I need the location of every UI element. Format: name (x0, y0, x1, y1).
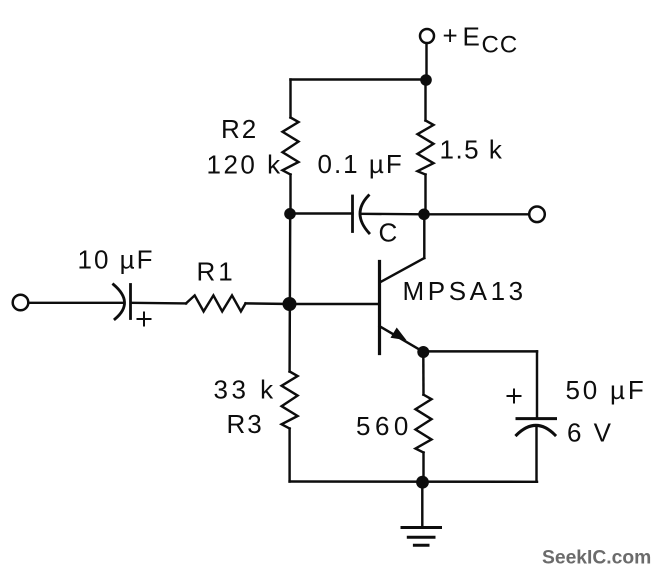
wire base lead (290, 303, 379, 305)
svg-text:E: E (463, 21, 482, 51)
wire top rail (291, 78, 427, 80)
terminal input (13, 295, 29, 311)
ground bar 1 (402, 526, 441, 529)
svg-text:C: C (379, 218, 400, 248)
svg-text:10 µF: 10 µF (78, 245, 155, 275)
terminal output (529, 207, 545, 223)
capacitor C 0.1uF curved plate (360, 196, 369, 234)
wire input lead (29, 302, 124, 304)
node emitter junction dot (417, 346, 429, 358)
capacitor 50uF straight plate (517, 417, 556, 420)
wire bypass cap top lead (536, 351, 538, 418)
wire 1.5k bottom lead (424, 175, 426, 215)
capacitor 10uF curved plate (114, 285, 125, 320)
terminal +Ecc (420, 29, 434, 43)
svg-text:CC: CC (482, 31, 519, 58)
wire R1 to base node (246, 302, 290, 305)
svg-text:1.5 k: 1.5 k (440, 135, 504, 165)
ground bar 2 (408, 536, 434, 539)
polarity plus of 10uF (138, 313, 151, 326)
wire output lead (424, 213, 529, 215)
svg-text:6 V: 6 V (567, 418, 614, 448)
wire capacitor C to output node (362, 213, 424, 216)
wire bottom rail (290, 480, 537, 483)
svg-text:560: 560 (356, 411, 413, 441)
wire node to capacitor C (290, 212, 353, 214)
svg-text:120 k: 120 k (207, 150, 283, 180)
capacitor 10uF straight plate (129, 285, 132, 319)
wire bypass cap bottom lead (535, 426, 537, 482)
node base junction dot (283, 297, 297, 311)
node top junction dot (420, 74, 432, 86)
wire collector diagonal (381, 258, 425, 282)
svg-text:+: + (443, 21, 460, 51)
resistor R1 (186, 295, 246, 311)
capacitor 50uF curved plate (517, 425, 556, 435)
ground bar 3 (414, 544, 428, 547)
wire ground stem (421, 482, 423, 527)
wire R3 bottom lead (288, 429, 290, 482)
resistor 1.5k (418, 121, 434, 175)
svg-text:33 k: 33 k (214, 375, 277, 405)
capacitor C 0.1uF straight plate (351, 196, 354, 232)
svg-text:R1: R1 (197, 257, 236, 287)
wire emitter diagonal (380, 326, 424, 352)
wire 10uF to R1 (132, 302, 186, 305)
svg-text:50 µF: 50 µF (566, 375, 647, 405)
wire collector vertical (423, 214, 425, 258)
emitter arrow (391, 328, 407, 341)
svg-text:MPSA13: MPSA13 (403, 276, 527, 306)
svg-text:R2: R2 (221, 114, 258, 144)
wire R2 bottom lead (289, 175, 291, 215)
resistor R3 33k (282, 372, 298, 429)
transistor Q1 base bar (378, 262, 381, 354)
resistor R2 120k (283, 118, 299, 175)
svg-text:R3: R3 (227, 409, 264, 439)
wire Ecc terminal to top node (425, 44, 427, 81)
wire divider vertical (288, 214, 291, 372)
wire 560 bottom lead (422, 453, 424, 483)
svg-text:0.1 µF: 0.1 µF (318, 149, 404, 179)
resistor 560 (416, 395, 432, 453)
svg-text:SeekIC.com: SeekIC.com (542, 548, 651, 569)
wire R2 top lead (289, 80, 291, 118)
polarity plus of 50uF (508, 390, 521, 403)
node base-divider junction dot (284, 208, 296, 220)
wire 1.5k top lead (424, 80, 426, 121)
wire 560 top lead (422, 352, 425, 394)
node output junction dot (418, 209, 430, 221)
wire emitter to bypass cap (423, 350, 537, 352)
node ground junction dot (416, 476, 429, 489)
